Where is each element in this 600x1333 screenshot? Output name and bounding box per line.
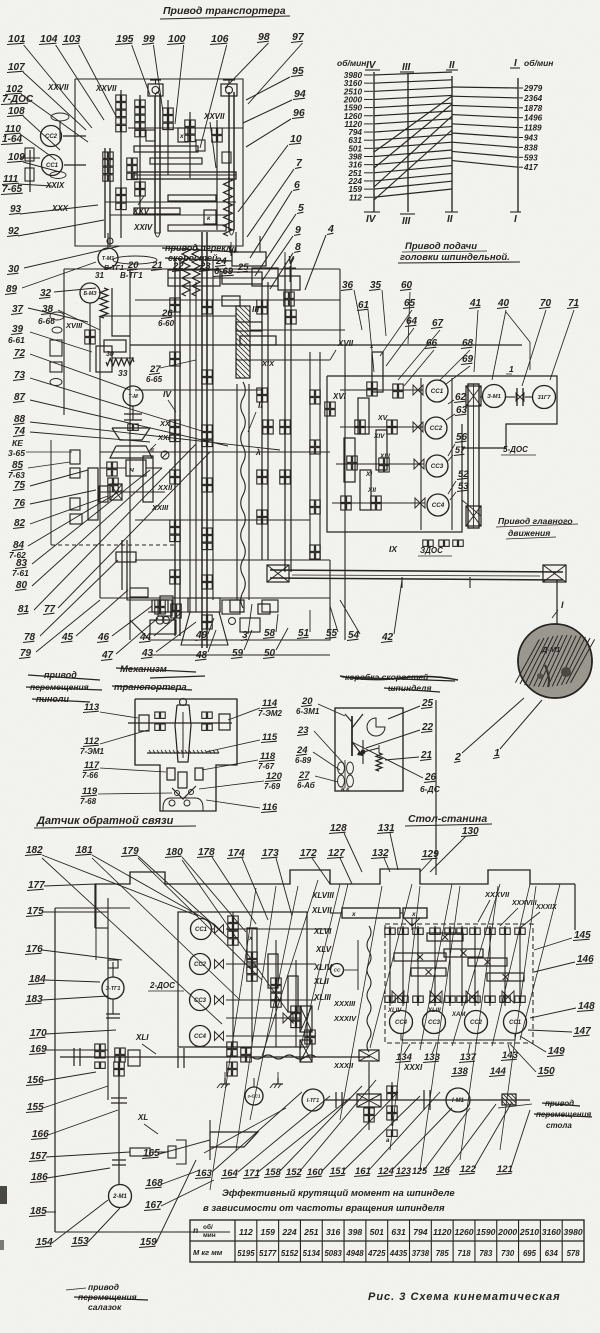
drive gear row 4 (332, 496, 425, 510)
callout 137 (459, 1044, 477, 1063)
gear stack c (103, 152, 113, 181)
table title line2 (203, 1203, 445, 1214)
svg-text:мин: мин (203, 1232, 216, 1239)
gear pair g22 (310, 440, 320, 454)
cross bar 1 (134, 146, 198, 152)
callout 46 (97, 606, 152, 643)
hlink y330 (250, 329, 345, 331)
callout 130 (430, 826, 479, 872)
label XV (365, 415, 390, 494)
svg-text:I: I (514, 58, 517, 69)
svg-text:СС4: СС4 (432, 502, 445, 509)
part XVIII (65, 318, 95, 372)
spring 33 (106, 359, 134, 379)
clutch CC2 main (425, 417, 447, 439)
coupling З-М1-ЗУ (506, 388, 532, 406)
callout 7-65 (1, 184, 23, 195)
callout 77 (43, 452, 210, 615)
gearbox2 frame (55, 908, 307, 1232)
callout 54 (340, 600, 360, 641)
svg-text:112: 112 (239, 1227, 253, 1237)
gear on V top (278, 276, 300, 306)
drive shaft XIV (358, 398, 369, 434)
callout 74 (13, 426, 150, 442)
bearing top right (221, 80, 237, 96)
bearing top left (148, 80, 163, 96)
label XXIV (133, 223, 153, 232)
svg-text:СС2: СС2 (430, 425, 443, 432)
svg-text:XXXII: XXXII (333, 1061, 354, 1070)
romans XLVIII (311, 891, 335, 900)
sensor right gear (219, 714, 230, 730)
spring 31 (95, 265, 124, 318)
svg-text:5-ДОС: 5-ДОС (503, 445, 528, 454)
2 gear stack B (247, 928, 257, 962)
svg-text:В-ТГ1: В-ТГ1 (120, 271, 143, 280)
svg-text:СС4: СС4 (194, 1034, 207, 1040)
title привод главного движения (496, 516, 578, 539)
callout 70 (522, 298, 552, 386)
svg-text:730: 730 (501, 1249, 515, 1258)
svg-text:5152: 5152 (281, 1249, 299, 1258)
svg-text:х: х (411, 911, 416, 918)
label lambda (255, 447, 261, 457)
slash circle (161, 451, 169, 459)
bottom bearing spindle (160, 596, 240, 645)
callout 134 (395, 1044, 413, 1063)
svg-text:СС1: СС1 (431, 388, 444, 395)
callout 53 (450, 481, 469, 500)
svg-text:XLIV: XLIV (387, 1008, 402, 1014)
clutch link line (401, 1034, 515, 1040)
svg-text:салазок: салазок (88, 1302, 122, 1312)
callout 78 (23, 560, 118, 643)
left edge blob (0, 1186, 7, 1250)
svg-text:316: 316 (326, 1227, 341, 1237)
svg-text:XLIII: XLIII (427, 1008, 441, 1014)
sensor left gear (139, 715, 149, 731)
gear pair g21 (310, 390, 320, 404)
drive gear row 1 (340, 382, 423, 398)
callout 146 (534, 954, 594, 972)
gear stack a (116, 90, 126, 238)
romans XLIII (313, 993, 332, 1002)
callout 68 (440, 338, 474, 380)
callout 57 (447, 445, 466, 462)
svg-text:6-60: 6-60 (158, 319, 175, 328)
svg-text:І-М1: І-М1 (452, 1098, 465, 1104)
svg-text:2364: 2364 (523, 94, 543, 103)
label XXXIII b (333, 999, 356, 1008)
callout 160 (306, 1092, 398, 1178)
clutch CC2 (41, 126, 62, 147)
callout 96 (246, 107, 305, 147)
table drive shaft (325, 1099, 530, 1101)
callout 171 (243, 1098, 350, 1179)
hlink y300 (135, 299, 340, 301)
svg-text:XII: XII (367, 487, 376, 494)
svg-text:783: 783 (479, 1249, 493, 1258)
callout 27b (297, 770, 338, 790)
callout 104 (39, 33, 104, 120)
callout 173 (261, 848, 292, 916)
sleeve around wavy (237, 384, 249, 600)
svg-text:5195: 5195 (237, 1249, 255, 1258)
callout 121 (496, 1110, 530, 1175)
svg-text:XXVII: XXVII (203, 112, 225, 121)
svg-text:XXIII: XXIII (151, 503, 169, 512)
callout 186 (30, 1168, 110, 1183)
gear stack b (135, 95, 145, 215)
bed inner ledge (95, 898, 108, 1100)
callout 43 (141, 622, 196, 659)
svg-text:6-66: 6-66 (38, 316, 55, 326)
svg-text:1120: 1120 (433, 1227, 452, 1237)
cross head (232, 232, 266, 266)
headstock outline (130, 560, 330, 640)
svg-text:631: 631 (391, 1227, 406, 1237)
svg-text:XV: XV (377, 415, 389, 422)
svg-text:398: 398 (348, 1227, 363, 1237)
callout 61 (357, 300, 374, 372)
callout 67 (398, 318, 444, 380)
label XX (159, 419, 171, 428)
callout 180 (165, 847, 246, 932)
label XXXIX (520, 904, 558, 928)
svg-text:XX: XX (159, 419, 171, 428)
gear pair g12 (202, 615, 212, 629)
svg-text:XXXIII: XXXIII (333, 999, 356, 1008)
callout 72 (13, 348, 130, 390)
label XXXII b (333, 1061, 354, 1070)
gear cluster extra2 (185, 112, 195, 178)
callout 2 (454, 698, 524, 763)
svg-text:3160: 3160 (542, 1227, 561, 1237)
headstock bottom blocks (150, 600, 330, 655)
motor З-М1 (483, 385, 506, 408)
svg-text:251: 251 (303, 1227, 319, 1237)
leader small (204, 1108, 286, 1153)
clutch CC4 main (427, 494, 449, 516)
cross bar 4 (134, 208, 180, 214)
relay contacts (338, 760, 354, 793)
svg-text:СС: СС (334, 968, 341, 973)
svg-text:І-ТГ1: І-ТГ1 (307, 1098, 320, 1104)
svg-text:I: I (514, 214, 517, 225)
left chain small (96, 884, 118, 968)
speed diagram column III (407, 74, 409, 212)
svg-text:33: 33 (118, 368, 128, 378)
callout 81 (17, 444, 196, 615)
callout 22 (366, 722, 434, 748)
callout 51 (297, 610, 310, 639)
svg-text:об/: об/ (203, 1223, 213, 1231)
callout 71 (550, 298, 580, 380)
svg-text:II: II (447, 214, 453, 225)
callout 21 (385, 750, 433, 761)
transistor VT (345, 714, 363, 756)
callout 3 (241, 604, 252, 641)
hline extra (105, 202, 236, 215)
svg-text:6-Аб: 6-Аб (297, 781, 316, 790)
hlink y360 (236, 359, 330, 361)
clutch 2CC4 (190, 1026, 211, 1047)
ellipse lever (113, 256, 157, 264)
coupling v (111, 1098, 127, 1103)
gear cluster extra4 (116, 188, 126, 210)
svg-text:4948: 4948 (345, 1249, 364, 1258)
clutch 3CC4 (390, 1011, 413, 1034)
svg-text:стола: стола (546, 1121, 572, 1130)
callout 113 (83, 702, 138, 718)
cone clutch c2 (413, 422, 423, 432)
callout 114 (228, 698, 283, 720)
callout 59 (231, 630, 252, 659)
callout 163 (195, 1092, 302, 1179)
callout 138 (451, 1066, 469, 1077)
callout 174 (227, 848, 268, 920)
svg-text:XIII: XIII (379, 453, 390, 460)
svg-text:XVIII: XVIII (65, 321, 83, 330)
vertical wavy left (367, 926, 371, 1052)
hl gear stack (95, 1044, 140, 1068)
label 5-ДОС (501, 445, 536, 455)
svg-text:XXIX: XXIX (45, 181, 65, 190)
callout 58 (263, 614, 278, 639)
ray diagram tweak (0, 0, 1, 1)
svg-text:838: 838 (524, 143, 538, 152)
coupling mid (178, 1048, 184, 1068)
callout 169 (29, 1044, 108, 1055)
small parts left1 (50, 312, 64, 386)
2 cone XLIII (283, 1006, 312, 1032)
svg-text:593: 593 (524, 153, 538, 162)
svg-text:XIV: XIV (373, 433, 385, 440)
callout 6-69 (213, 266, 234, 277)
callout 124 (377, 1108, 452, 1177)
callout 131 (377, 823, 398, 870)
svg-text:112: 112 (349, 193, 362, 202)
2 gear stack E (271, 940, 281, 1047)
callout 166 (31, 1110, 118, 1140)
svg-text:7-ЭМ1: 7-ЭМ1 (80, 747, 105, 756)
cross bar extra1 (150, 158, 202, 164)
romans XLVI (313, 927, 332, 936)
svg-text:II: II (449, 60, 455, 71)
drive shaft XI2 (360, 470, 371, 510)
callout 159 (139, 1160, 196, 1248)
svg-text:943: 943 (524, 134, 538, 143)
svg-text:XLIV: XLIV (313, 963, 332, 972)
screw end left (267, 565, 289, 582)
bracket ground1 (217, 1078, 230, 1088)
callout 24 (215, 256, 227, 267)
callout 24 (295, 745, 340, 770)
bevel t4 (502, 991, 514, 1003)
svg-text:5083: 5083 (324, 1249, 342, 1258)
callout RF 3-65 (8, 438, 72, 458)
arrow to привод (498, 1104, 532, 1108)
sensor spindle (175, 699, 191, 763)
svg-text:6-89: 6-89 (295, 756, 312, 765)
speed diagram header (337, 58, 553, 73)
callout 80 (15, 468, 162, 591)
frame of conveyor drive gearbox (75, 79, 243, 246)
sensor housing (135, 699, 237, 811)
motor Б-МЗ (80, 283, 100, 318)
callout 38 (38, 304, 100, 330)
title Привод подачи головки шпиндельной (398, 241, 520, 263)
svg-text:Привод подачи: Привод подачи (405, 241, 477, 252)
svg-text:III: III (252, 304, 260, 314)
callout 50 (263, 628, 288, 659)
callout 116 (206, 800, 278, 813)
gear pair g24 (310, 545, 320, 559)
speed diagram column IV (373, 72, 375, 212)
svg-text:7-ЭМ2: 7-ЭМ2 (258, 709, 283, 718)
gear pair g10 (202, 528, 212, 550)
label IX (389, 544, 398, 554)
callout 143 (501, 1044, 519, 1061)
svg-text:З-ТГ1: З-ТГ1 (106, 986, 121, 992)
gear pair g4 (170, 520, 180, 542)
motor Д-М1 hatch (515, 624, 594, 698)
cone pulleys (110, 424, 152, 458)
svg-text:578: 578 (567, 1249, 581, 1258)
clutch CC1 main (426, 380, 448, 402)
svg-text:IV: IV (366, 214, 377, 225)
hgear r6 (487, 973, 524, 981)
callout 158 (264, 1086, 362, 1178)
callout 27-665 (146, 360, 196, 384)
2 gear stack D (268, 954, 278, 988)
label XIX (261, 359, 275, 368)
svg-text:головки шпиндельной.: головки шпиндельной. (400, 252, 510, 263)
hlink y390 (135, 389, 262, 391)
svg-text:ЗДОС: ЗДОС (420, 546, 443, 555)
leader 182 long (42, 858, 222, 1024)
svg-text:n: n (193, 1225, 198, 1235)
callout 52 (448, 469, 469, 494)
svg-text:XLVII: XLVII (311, 906, 332, 915)
gear pair g23 (310, 500, 320, 514)
hlink y520 (135, 519, 310, 521)
svg-text:6-65: 6-65 (146, 375, 163, 384)
svg-text:3-65: 3-65 (8, 448, 25, 458)
hlink y316 (100, 315, 236, 317)
svg-text:6-ЗМ1: 6-ЗМ1 (296, 707, 320, 716)
gear pair g1 (170, 352, 180, 366)
callout 62 (448, 392, 467, 404)
horizontal shaft bottom-left (60, 1056, 370, 1058)
callout 4 (305, 223, 334, 290)
gear cluster extra3 (212, 120, 222, 230)
vertical shaft to 2-M1 (118, 1057, 120, 1185)
svg-text:Т-М: Т-М (128, 394, 138, 400)
callout 88 (13, 414, 280, 450)
svg-text:ХАМ: ХАМ (451, 1012, 466, 1018)
link to motor (556, 580, 558, 624)
callout 97 (248, 31, 305, 104)
label XXXIV b (333, 1014, 357, 1023)
coupling w (112, 1160, 126, 1165)
construction leaders bed (210, 880, 560, 1190)
callout 93 (9, 204, 98, 215)
leader 40 bend (506, 312, 530, 370)
callout 149 (520, 1036, 565, 1057)
gear rect mid1 (222, 296, 240, 306)
svg-text:224: 224 (281, 1227, 297, 1237)
lower shaft to motor (107, 238, 113, 247)
svg-text:СС3: СС3 (428, 1020, 441, 1026)
hgear r5 (411, 968, 446, 976)
svg-text:х: х (179, 133, 184, 140)
callout 10 (238, 133, 302, 212)
callout 41 (469, 298, 482, 372)
callout 64 (386, 316, 418, 366)
label V top (285, 252, 296, 268)
gear pair g16 (257, 470, 267, 484)
callout 26-660 (158, 308, 175, 328)
speed diagram column I (517, 78, 519, 212)
callout 103 (62, 33, 116, 116)
callout 153 (71, 1208, 120, 1247)
bevel t2 (430, 991, 442, 1003)
callout 115 (206, 732, 278, 752)
callout 185 (29, 1206, 56, 1217)
callout 35b (369, 280, 386, 336)
gear pair g17 (257, 510, 267, 524)
callout 21 (151, 260, 163, 271)
callout 20 (127, 260, 139, 271)
bottom pd row (385, 996, 525, 1002)
callout 150 (510, 1044, 555, 1077)
gear stack d (127, 158, 137, 180)
svg-text:6-61: 6-61 (8, 335, 25, 345)
struck коробка шпинделя (340, 672, 458, 693)
left input shaft (20, 113, 86, 192)
label XXII (157, 483, 173, 492)
callout 120 (199, 771, 283, 791)
svg-text:в к: в к (341, 787, 350, 793)
cone clutch c3 (414, 459, 424, 469)
label III (252, 304, 260, 314)
table title line1 (222, 1188, 455, 1199)
drive gear row 2 (340, 420, 423, 434)
callout 56 (448, 432, 468, 456)
callout 182 (25, 845, 198, 916)
spindle shaft center pair (202, 232, 207, 648)
vshafts (390, 926, 520, 1006)
small clutch CC at gearbox right (331, 940, 359, 990)
svg-text:XXVII: XXVII (95, 84, 117, 93)
callout 154 (35, 1200, 108, 1248)
sensor lower rects (167, 768, 203, 788)
svg-text:4435: 4435 (389, 1249, 408, 1258)
clutch 2CC1 (191, 919, 212, 940)
dashed boundary (51, 430, 175, 545)
hlink y450 (100, 451, 330, 453)
svg-text:718: 718 (458, 1249, 472, 1258)
callout 100 (167, 33, 186, 124)
svg-text:XXII: XXII (157, 483, 173, 492)
callout 39 (8, 324, 92, 352)
callout 32 (39, 288, 96, 299)
svg-text:III: III (402, 62, 411, 73)
wavy shaft XL (252, 1055, 316, 1059)
gear pair g6 (202, 300, 212, 314)
callout 127 (327, 848, 352, 884)
